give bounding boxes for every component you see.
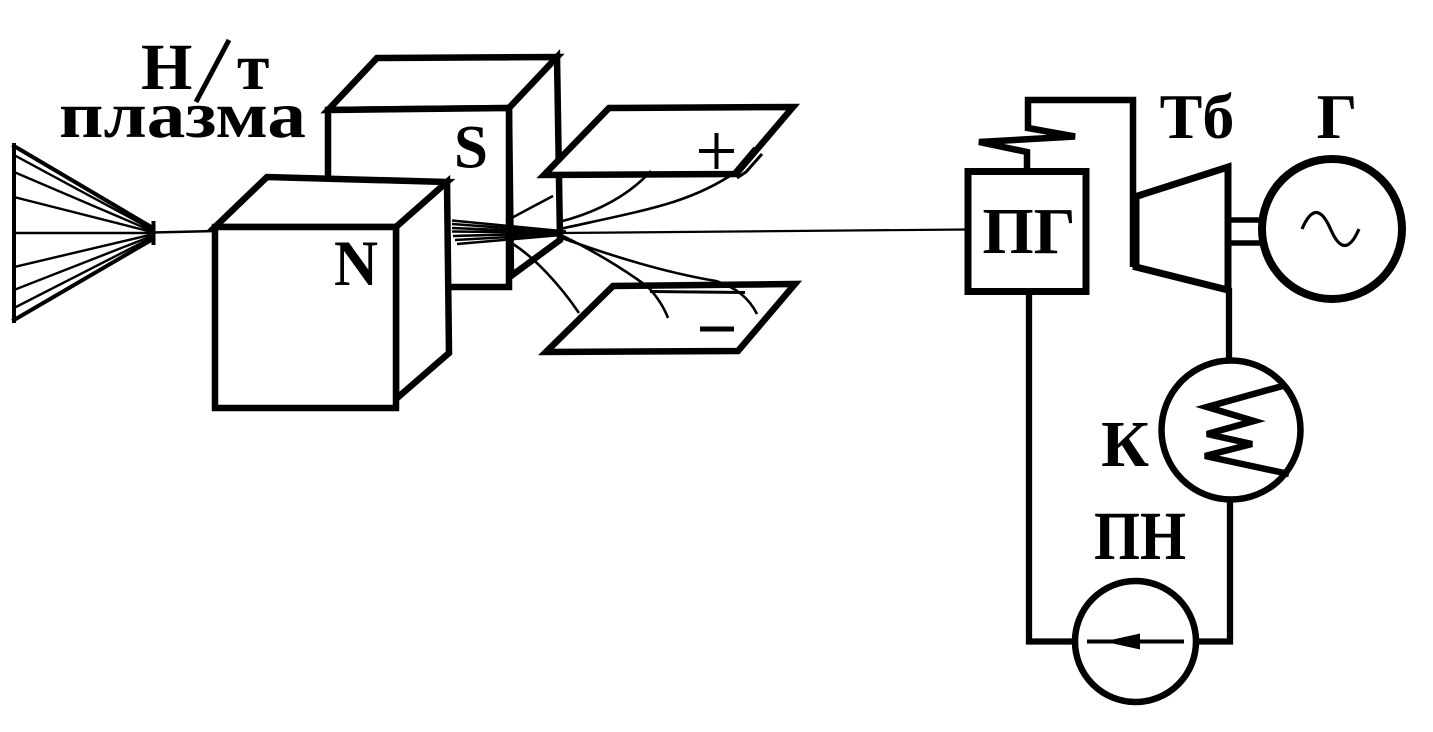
magnet N front face	[215, 227, 396, 408]
electrode plate +	[544, 107, 793, 175]
svg-text:ПГ: ПГ	[982, 195, 1075, 268]
shaft turbine to generator	[1229, 220, 1262, 243]
svg-text:N: N	[334, 228, 378, 300]
svg-text:S: S	[454, 115, 488, 182]
wire condenser to pump	[1197, 499, 1230, 642]
label −	[700, 327, 734, 332]
plate + thickness edge	[737, 154, 762, 178]
turbine Тб	[1136, 167, 1228, 290]
svg-text:К: К	[1101, 408, 1149, 481]
svg-text:ПН: ПН	[1094, 498, 1186, 574]
steam generator box ПГ	[968, 172, 1086, 292]
field line merging with + plate right edge	[733, 148, 755, 174]
plate − thickness edge	[650, 292, 745, 293]
svg-text:Г: Г	[1317, 81, 1358, 152]
wire pump to steam generator	[1029, 295, 1072, 642]
sine wave inside generator	[1302, 213, 1359, 246]
beam line from nozzle apex to magnet N	[153, 231, 216, 233]
exhaust pipe turbine to condenser	[1226, 288, 1232, 360]
steam pipe with heater zigzag to turbine	[979, 100, 1133, 267]
field line to − plate right	[562, 238, 757, 314]
cooling coil inside condenser	[1205, 385, 1289, 474]
pump arrow	[1087, 640, 1184, 644]
magnet N top face	[215, 177, 447, 227]
field line to + plate corner	[560, 172, 736, 229]
field line crossing + plate edge	[559, 171, 651, 222]
svg-text:Тб: Тб	[1160, 81, 1235, 152]
beam line to steam generator	[561, 230, 966, 234]
magnet S top face	[328, 57, 557, 110]
magnet S right face	[509, 57, 560, 276]
pump circle ПН	[1075, 581, 1196, 702]
electrode plate −	[546, 284, 795, 352]
field line to − plate middle	[563, 236, 668, 318]
magnet N right face	[396, 182, 449, 399]
label +	[699, 133, 734, 169]
plasma jet nozzle cone	[14, 145, 154, 321]
slash of Н/т	[196, 40, 229, 102]
condenser circle К	[1162, 361, 1301, 500]
svg-text:плазма: плазма	[59, 79, 306, 152]
magnetic field lines converging fan	[452, 196, 566, 244]
generator circle Г	[1262, 159, 1402, 299]
magnet S front face	[328, 108, 509, 287]
field line down short	[513, 244, 579, 313]
